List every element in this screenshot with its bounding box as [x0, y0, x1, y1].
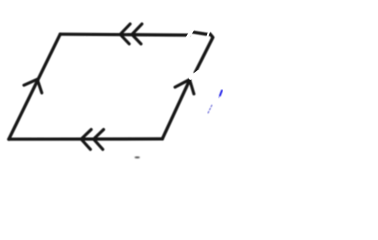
arrow mark on side BC (single parallel mark) — [175, 80, 194, 94]
white-out slash between redrawn dash and corner — [207, 31, 209, 38]
white-out slash across top side near corner — [187, 30, 192, 39]
blue pen mark 2 (faint dotted slash) — [208, 105, 212, 113]
arrow mark on side DA (single parallel mark) — [24, 79, 42, 93]
wire side BC lower segment (right side below gap) — [162, 80, 190, 139]
wire side AB redrawn dash near erased corner — [192, 32, 208, 35]
blue pen mark 1 (short slash right of corner) — [219, 91, 222, 98]
wire side DA (left side) — [9, 34, 60, 139]
chevron 2 on side AB (double parallel mark, right chevron) — [132, 24, 142, 44]
gray smudge below bottom side — [135, 157, 140, 159]
white-out slash across right side above arrow — [191, 72, 199, 78]
chevron 2 on side CD (double parallel mark, right chevron) — [94, 130, 104, 150]
chevron 1 on side AB (double parallel mark, left chevron) — [120, 24, 130, 44]
wire side AB (top side of parallelogram, main segment) — [60, 33, 189, 37]
wire side CD (bottom side) — [9, 137, 163, 141]
node B (top-right corner, redrawn over white-out) — [195, 34, 213, 73]
chevron 1 on side CD (double parallel mark, left chevron) — [81, 130, 91, 150]
